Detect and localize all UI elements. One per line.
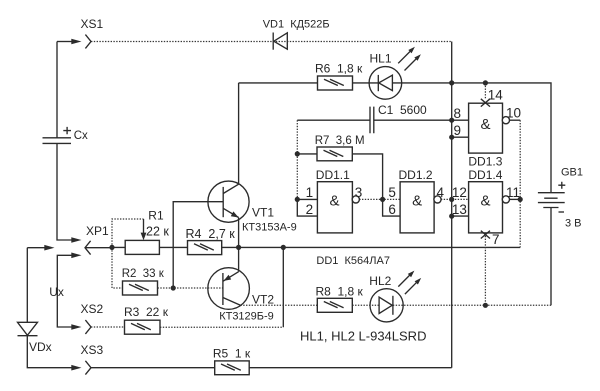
resistor R1 (variable)	[125, 219, 159, 254]
svg-text:DD1 К564ЛА7: DD1 К564ЛА7	[316, 255, 390, 267]
wire XP1 middle pin horizontal	[27, 247, 46, 249]
wire R2 branch vertical (dotted)	[112, 247, 123, 288]
svg-text:10: 10	[506, 106, 521, 121]
node pin3-R7 junction	[380, 197, 385, 202]
wire HL1 to battery top	[392, 83, 551, 193]
op-amp gate DD1.3	[469, 103, 510, 153]
LED HL1	[369, 47, 421, 100]
connector XS1 socket fork	[85, 35, 91, 49]
wire rail drop to R3 row	[282, 247, 284, 327]
wire DD1.3 output vertical to rail corner (dotted)	[519, 120, 521, 247]
wire R1 wiper loop (dotted)	[112, 219, 144, 247]
op-amp gate DD1.4	[469, 182, 510, 233]
svg-text:R1: R1	[148, 208, 164, 222]
svg-text:DD1.2: DD1.2	[399, 168, 433, 182]
svg-text:6: 6	[388, 202, 396, 217]
svg-text:HL2: HL2	[369, 274, 391, 288]
pin 7 power cross mark	[481, 231, 490, 239]
wire DD1.1 pin 2 branch	[297, 199, 317, 216]
op-amp gate DD1.1	[317, 182, 359, 233]
connector XS2 plug arrow	[71, 324, 81, 330]
node bus-pin12 junction	[449, 197, 454, 202]
svg-text:R2 33 к: R2 33 к	[122, 268, 165, 280]
svg-text:DD1.3: DD1.3	[468, 154, 502, 168]
connector XP1 middle pin arrow	[44, 245, 54, 251]
wire DD1.1 pin 1	[297, 198, 317, 200]
svg-text:2: 2	[306, 202, 314, 217]
wire left vertical to VDx	[26, 248, 28, 322]
svg-text:VT1: VT1	[252, 205, 274, 219]
wire R2 output to VT2 base (dotted)	[158, 287, 223, 289]
op-amp gate DD1.2	[400, 182, 441, 233]
svg-text:R3 22 к: R3 22 к	[124, 305, 169, 319]
wire R5 to bus	[249, 367, 452, 369]
svg-text:XP1: XP1	[86, 224, 109, 238]
svg-text:9: 9	[453, 123, 461, 138]
wire VT2 emitter vertical from rail	[238, 247, 240, 271]
connector XS3 plug arrow	[71, 365, 81, 371]
wire XS1 left vertical	[56, 42, 58, 138]
wire DD1.2 pin 4 to DD1.4 pin 12 (dotted)	[441, 198, 469, 200]
svg-text:XS2: XS2	[81, 302, 104, 316]
connector XS1 plug arrow	[71, 39, 81, 45]
node pin7-HL2 junction	[483, 303, 488, 308]
resistor R7	[317, 147, 352, 161]
node rail-R3drop junction	[281, 245, 286, 250]
wire XS1 plug lead	[57, 41, 73, 43]
transistor VT1	[208, 181, 249, 222]
svg-text:R6 1,8 к: R6 1,8 к	[315, 61, 363, 75]
wire R8 to HL2 (dotted)	[352, 304, 379, 306]
node R7 left junction	[295, 151, 300, 156]
svg-text:22 к: 22 к	[146, 225, 169, 239]
svg-text:HL1, HL2 L-934LSRD: HL1, HL2 L-934LSRD	[300, 329, 426, 344]
wire DD1.2 pin 6 branch	[383, 199, 401, 216]
node bus-pin8 junction	[449, 118, 454, 123]
svg-text:&: &	[480, 116, 490, 133]
capacitor Cx plates	[43, 138, 72, 144]
svg-text:R4 2,7 к: R4 2,7 к	[186, 227, 236, 241]
wire VT1 emitter vertical to rail	[238, 218, 240, 248]
svg-text:&: &	[329, 193, 339, 210]
wire XP1 bottom pin and down to XS2 plug	[57, 255, 72, 327]
svg-text:XS1: XS1	[81, 17, 104, 31]
svg-text:HL1: HL1	[370, 51, 392, 65]
capacitor C1 plates	[370, 107, 374, 134]
svg-text:R7 3,6 М: R7 3,6 М	[315, 135, 365, 147]
svg-text:&: &	[412, 193, 422, 210]
svg-text:5: 5	[388, 185, 396, 200]
wire DD1.3 pin 9	[452, 136, 469, 138]
svg-text:&: &	[480, 193, 490, 210]
wire HL2 to battery minus (dotted)	[393, 304, 551, 306]
node pin14-HL1 junction	[483, 80, 488, 85]
wire R7 left lead	[297, 153, 317, 155]
wire VDx to XS3 plug	[27, 336, 72, 368]
svg-text:VT2: VT2	[252, 292, 274, 306]
wire XS1 socket tail (dotted)	[91, 41, 452, 43]
svg-text:DD1.4: DD1.4	[468, 168, 502, 182]
transistor VT2	[208, 268, 250, 310]
node bus-HL1 junction	[449, 80, 454, 85]
battery GB1	[538, 182, 565, 212]
wire DD1.4 pin 7 drop (dotted)	[484, 233, 486, 305]
node emitters junction	[236, 245, 241, 250]
connector XS3 socket fork	[85, 361, 91, 375]
resistor R5	[215, 361, 250, 375]
wire C1 left horizontal	[297, 119, 370, 121]
svg-text:4: 4	[437, 185, 445, 200]
wire VT1 base	[173, 202, 223, 288]
node R2-VT1base junction	[171, 285, 176, 290]
pin 14 power cross mark	[481, 99, 490, 107]
connector XP1 top pin arrow	[71, 237, 81, 243]
svg-text:3: 3	[355, 185, 363, 200]
resistor R8	[317, 298, 352, 312]
svg-text:R5 1 к: R5 1 к	[213, 347, 251, 361]
wire R7 right lead down to pin 3 node	[352, 154, 382, 200]
svg-text:Cх: Cх	[74, 130, 88, 142]
wire VT1 collector vertical	[238, 83, 240, 184]
svg-text:12: 12	[452, 185, 467, 200]
svg-text:11: 11	[506, 185, 520, 200]
wire C1 left vertical to DD1.1 inputs (dotted)	[296, 120, 298, 199]
resistor R4	[188, 241, 222, 255]
svg-text:8: 8	[453, 106, 461, 121]
wire R3 to rail drop (dotted)	[160, 326, 283, 328]
connector XP1 bottom pin arrow	[71, 253, 81, 259]
capacitor Cx plus sign	[63, 127, 71, 134]
svg-text:VDх: VDх	[29, 340, 52, 354]
node DD1.1 input junction	[295, 197, 300, 202]
svg-text:3 В: 3 В	[565, 217, 582, 229]
svg-text:14: 14	[488, 87, 504, 102]
node bus-pin13 junction	[449, 214, 454, 219]
wire DD1.3 pin 14 drop (dotted)	[484, 83, 486, 99]
connector XS2 socket fork	[85, 320, 91, 334]
wire Cx bottom to XP1 top pin	[57, 143, 73, 240]
svg-text:КТ3153А-9: КТ3153А-9	[242, 221, 297, 233]
wire XS2 socket tail to R3 (dotted)	[91, 326, 125, 328]
svg-text:XS3: XS3	[81, 343, 104, 357]
node pin10-pin11 junction	[518, 197, 523, 202]
svg-text:VD1 КД522Б: VD1 КД522Б	[263, 19, 330, 31]
svg-text:DD1.1: DD1.1	[316, 168, 350, 182]
node bus-pin9 junction	[449, 135, 454, 140]
LED HL2	[370, 271, 421, 322]
wire HL1 row left	[239, 82, 379, 84]
connector XP1 socket fork	[85, 241, 91, 255]
wire DD1.4 pin 13	[452, 215, 469, 217]
wire VT2 collector to R8 (dotted)	[240, 304, 317, 306]
wire main vertical bus	[451, 42, 453, 368]
resistor R2	[123, 281, 158, 295]
wire DD1.1 pin 3 to DD1.2 pin 5 (dotted)	[359, 198, 400, 200]
resistor R6	[318, 76, 353, 90]
diode VD1	[273, 33, 287, 50]
wire DD1.3 pin 10 output	[509, 119, 520, 121]
wire emitter rail	[112, 246, 520, 248]
wire XS3 row to R5	[91, 367, 215, 369]
svg-text:13: 13	[452, 202, 467, 217]
svg-text:7: 7	[492, 232, 500, 247]
resistor R3	[125, 320, 161, 334]
wire C1 right to DD1.3 pin 8	[374, 119, 469, 121]
wire DD1.4 pin 11 output	[509, 198, 520, 200]
node rail-R1 junction	[109, 245, 114, 250]
svg-text:R8 1,8 к: R8 1,8 к	[316, 284, 364, 298]
wire battery bottom vertical	[550, 207, 552, 305]
svg-text:C1 5600: C1 5600	[378, 103, 427, 117]
svg-text:Uх: Uх	[49, 285, 64, 299]
wire XP1 socket tail	[85, 247, 112, 249]
svg-text:КТ3129Б-9: КТ3129Б-9	[219, 310, 274, 322]
svg-text:GB1: GB1	[561, 166, 583, 178]
svg-text:1: 1	[306, 185, 314, 200]
diode VDx	[18, 322, 38, 335]
